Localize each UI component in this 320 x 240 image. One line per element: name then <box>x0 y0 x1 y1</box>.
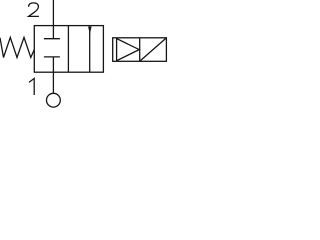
blocked port T bottom crossbar <box>44 56 60 58</box>
label 1 <box>29 78 34 95</box>
valve position divider <box>67 26 69 73</box>
blocked port T bottom stem <box>52 57 54 72</box>
flow arrow shaft <box>89 30 91 72</box>
solenoid box divider <box>139 38 141 62</box>
valve body outer rectangle <box>34 26 103 73</box>
solenoid diagonal <box>140 38 165 60</box>
return spring <box>0 37 34 57</box>
port 2 line <box>52 0 54 26</box>
solenoid box <box>113 38 167 62</box>
blocked port T top crossbar <box>44 38 60 40</box>
blocked port T top stem <box>52 26 54 39</box>
port 1 line <box>52 72 54 93</box>
label 2 <box>29 3 39 17</box>
solenoid triangle <box>117 39 140 61</box>
port 1 circle <box>47 93 61 107</box>
flow arrow head <box>88 27 92 35</box>
